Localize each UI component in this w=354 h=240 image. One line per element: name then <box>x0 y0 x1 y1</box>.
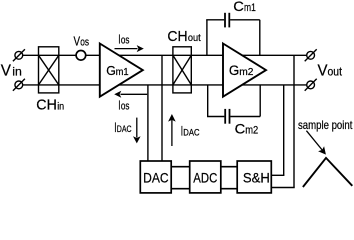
wire DAC left vertical <box>147 85 149 161</box>
svg-text:out: out <box>188 32 201 44</box>
svg-text:CH: CH <box>36 98 57 114</box>
svg-text:m1: m1 <box>244 2 256 14</box>
svg-text:DAC: DAC <box>117 124 132 135</box>
output terminal top <box>305 49 317 61</box>
output terminal bottom <box>305 79 317 91</box>
annotation arrow to sample point <box>306 131 326 155</box>
wire DAC right vertical <box>161 55 163 161</box>
svg-text:CH: CH <box>167 29 187 45</box>
node Vout label <box>318 63 343 80</box>
label Vos <box>74 33 90 48</box>
label CHout <box>167 29 200 45</box>
input terminal bottom <box>13 79 25 91</box>
svg-text:os: os <box>121 101 130 113</box>
svg-text:in: in <box>57 101 64 113</box>
svg-text:os: os <box>80 36 89 48</box>
bus DAC to ADC <box>171 167 190 189</box>
node Vin label <box>1 63 22 80</box>
chopper CHin <box>39 47 59 93</box>
svg-text:m1: m1 <box>116 66 129 78</box>
current arrow Ios bottom <box>114 91 147 113</box>
svg-text:out: out <box>328 65 343 79</box>
chopper CHout <box>173 47 191 93</box>
wire top rail <box>23 54 307 56</box>
input terminal top <box>13 49 25 61</box>
wire bottom rail <box>23 84 307 86</box>
current arrow IDAC down <box>114 118 140 144</box>
waveform triangle <box>303 158 352 187</box>
svg-text:sample point: sample point <box>298 118 353 132</box>
bus ADC to S&H <box>221 167 237 189</box>
wire feedback left vertical (bottom rail to S&H) <box>271 85 284 175</box>
capacitor Cm1 <box>206 13 260 56</box>
svg-text:os: os <box>121 34 130 46</box>
label CHin <box>36 98 64 114</box>
capacitor Cm2 <box>207 85 260 124</box>
offset source Vos <box>76 51 86 61</box>
block DAC <box>140 161 171 193</box>
current arrow IDAC up <box>168 114 200 146</box>
svg-text:G: G <box>229 63 239 79</box>
label Cm1 <box>233 0 256 14</box>
svg-text:ADC: ADC <box>193 170 217 185</box>
svg-text:C: C <box>233 0 244 14</box>
svg-text:V: V <box>1 63 12 80</box>
label sample point <box>298 118 353 132</box>
label Cm2 <box>235 122 259 137</box>
current arrow Ios top <box>115 31 144 52</box>
svg-text:in: in <box>12 65 22 79</box>
block S&H <box>237 161 271 193</box>
svg-text:V: V <box>318 63 328 80</box>
wire feedback right vertical (top rail to S&H) <box>271 55 294 187</box>
svg-text:G: G <box>106 63 116 78</box>
svg-text:m2: m2 <box>245 125 258 137</box>
svg-text:DAC: DAC <box>143 170 169 185</box>
op-amp Gm1 <box>100 44 143 97</box>
op-amp Gm2 <box>223 44 266 97</box>
svg-text:m2: m2 <box>239 66 253 78</box>
svg-text:S&H: S&H <box>243 170 270 185</box>
block ADC <box>190 161 221 193</box>
svg-text:DAC: DAC <box>183 128 199 139</box>
svg-text:C: C <box>235 122 246 137</box>
